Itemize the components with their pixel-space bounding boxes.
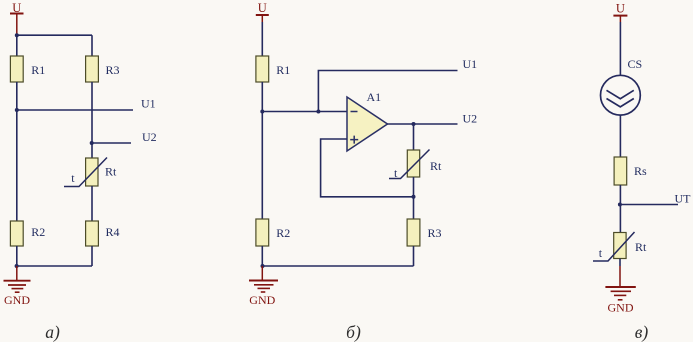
- junction U1 branch (b): [316, 110, 320, 114]
- resistor R3 (a): [86, 56, 120, 82]
- svg-text:Rs: Rs: [634, 164, 647, 178]
- wire bottom horizontal (a): [17, 265, 92, 267]
- wire bottom horizontal (b): [262, 265, 413, 267]
- junction UT tap (v): [618, 203, 622, 207]
- thermistor Rt (a): [64, 158, 117, 187]
- svg-text:UT: UT: [675, 192, 692, 206]
- svg-text:R1: R1: [31, 63, 45, 77]
- power U (circuit a): [10, 1, 24, 35]
- svg-text:R2: R2: [276, 226, 290, 240]
- wire R4 bottom lead (a): [91, 246, 93, 266]
- resistor R3 (b): [407, 219, 441, 246]
- junction U2 tap (a): [90, 141, 94, 145]
- svg-text:R4: R4: [106, 225, 120, 239]
- wire R1 down to R2 (b): [261, 82, 263, 219]
- junction feedback (b): [412, 195, 416, 199]
- wire R2 bottom lead (a): [16, 246, 18, 266]
- svg-text:GND: GND: [4, 293, 30, 307]
- power U (circuit b): [256, 1, 269, 22]
- svg-text:а): а): [45, 322, 60, 342]
- resistor R2 (b): [256, 219, 290, 246]
- resistor R1 (b): [256, 56, 290, 82]
- wire node U1 horizontal (a): [17, 109, 133, 111]
- wire U1 node down to R2 (a): [16, 110, 18, 221]
- wire output down to Rt (b): [413, 124, 415, 150]
- wire R1 top lead (a): [16, 35, 18, 56]
- svg-text:Rt: Rt: [105, 165, 117, 179]
- thermistor Rt (v): [593, 232, 647, 261]
- svg-text:U2: U2: [142, 130, 157, 144]
- svg-text:R1: R1: [276, 63, 290, 77]
- svg-text:в): в): [635, 322, 649, 342]
- power U (circuit v): [613, 2, 627, 23]
- wire CS to Rs (v): [619, 116, 621, 158]
- wire U to R1 (b): [261, 22, 263, 56]
- svg-text:A1: A1: [367, 90, 382, 104]
- wire node U2 horizontal (a): [92, 142, 131, 144]
- wire R3 bottom to Rt (a): [91, 82, 93, 158]
- node U2 label (a): [142, 130, 157, 144]
- wire R3 top lead (a): [91, 35, 93, 56]
- svg-text:GND: GND: [249, 293, 275, 307]
- wire Rs to Rt (v): [619, 185, 621, 233]
- resistor Rs (v): [614, 157, 647, 185]
- op-amp A1: [347, 90, 388, 151]
- resistor R2 (a): [10, 221, 45, 246]
- wire Rt to R4 (a): [91, 186, 93, 221]
- svg-text:GND: GND: [608, 301, 634, 315]
- node UT label (v): [675, 192, 692, 206]
- current source CS: [601, 57, 643, 115]
- ground (a): [4, 266, 31, 307]
- wire to inverting input (b): [262, 111, 347, 113]
- wire node UT horizontal (v): [620, 204, 678, 206]
- thermistor Rt (b): [389, 150, 442, 181]
- svg-text:Rt: Rt: [430, 159, 442, 173]
- svg-text:б): б): [346, 322, 361, 342]
- wire U1 branch (b): [318, 71, 457, 112]
- caption v): [635, 322, 649, 342]
- junction U1 tap (a): [15, 108, 19, 112]
- svg-text:U2: U2: [463, 112, 478, 126]
- wire R2 bottom lead (b): [261, 246, 263, 266]
- svg-text:R3: R3: [106, 63, 120, 77]
- wire non-inverting input feedback (b): [321, 139, 414, 197]
- node U1 label (b): [463, 57, 478, 71]
- junction ground (a): [15, 264, 19, 268]
- junction divider tap (b): [260, 110, 264, 114]
- svg-text:U1: U1: [463, 57, 478, 71]
- wire Rt to R3 (b): [413, 177, 415, 219]
- svg-text:U1: U1: [141, 97, 156, 111]
- svg-text:R3: R3: [428, 226, 442, 240]
- ground (b): [249, 266, 278, 307]
- svg-text:U: U: [616, 2, 625, 16]
- wire top horizontal (a): [17, 34, 92, 36]
- svg-text:CS: CS: [628, 57, 643, 71]
- svg-text:U: U: [258, 1, 267, 15]
- resistor R1 (a): [10, 56, 45, 82]
- junction output (b): [412, 122, 416, 126]
- resistor R4 (a): [86, 221, 120, 246]
- caption b): [346, 322, 361, 342]
- junction top-left (a): [15, 33, 19, 37]
- junction ground (b): [261, 264, 265, 268]
- node U1 label (a): [141, 97, 156, 111]
- wire R3 bottom lead (b): [413, 246, 415, 266]
- svg-text:R2: R2: [31, 225, 45, 239]
- wire Rt to ground (v): [619, 259, 621, 267]
- svg-text:Rt: Rt: [635, 240, 647, 254]
- wire R1 bottom lead (a): [16, 82, 18, 110]
- wire U to current source (v): [619, 22, 621, 75]
- caption a): [45, 322, 60, 342]
- node U2 label (b): [463, 112, 478, 126]
- ground (v): [605, 266, 635, 315]
- wire op-amp output (b): [388, 123, 458, 125]
